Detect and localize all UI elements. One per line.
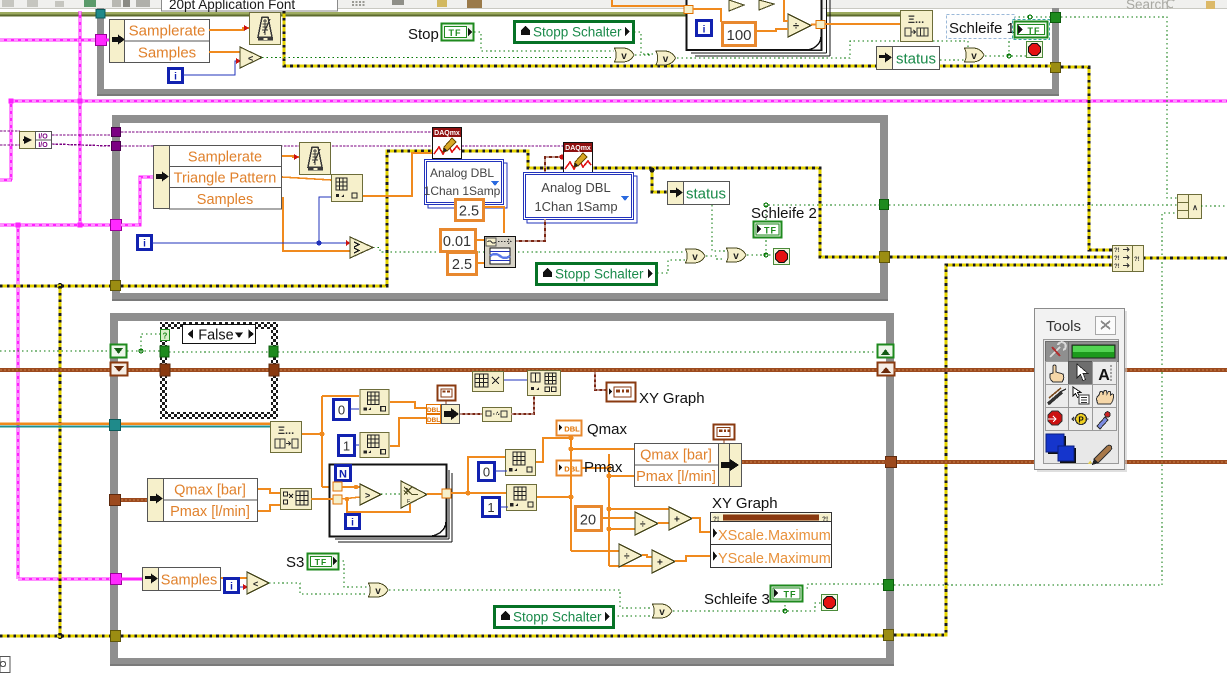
svg-text:TF: TF (764, 226, 777, 236)
svg-text:i: i (703, 25, 706, 36)
wire: brown waveform wire across loop3 row (0, 368, 877, 372)
svg-text:A: A (1098, 367, 1110, 384)
tool: edit text (A) (1093, 362, 1117, 385)
node: unbundle Samples (loop3 bottom) (143, 568, 221, 591)
wire: pink stub to unbundle (loop2) (121, 177, 153, 225)
tunnel: for loop array input tunnels (333, 482, 342, 491)
while loop 1 border (97, 8, 1059, 96)
constant: 100 (723, 23, 756, 46)
wire: green dotted loop1 to AND (1061, 17, 1177, 198)
svg-text:Schleife 3: Schleife 3 (704, 591, 770, 608)
node: divide 2 (619, 544, 642, 567)
tunnel: orange tunnel case right (816, 21, 825, 29)
node: partial triangle nodes at cut top of case (729, 0, 774, 11)
svg-text:i: i (351, 518, 354, 529)
wire: dotted Stop TF to OR (474, 32, 614, 51)
wire: orange Samples to less-than (209, 51, 240, 53)
junction: pink wire junctions (9, 99, 83, 228)
node: unbundle Qmax [bar] / Pmax [l/min] (148, 479, 258, 522)
wire: maroon dashed to XY graph terminal (595, 372, 606, 390)
tool: connect wire (spool) (1046, 385, 1069, 408)
wire: maroon dashed below box2 (544, 219, 546, 241)
while loop 3 border (110, 313, 894, 666)
wire: orange select to output tunnel (427, 493, 442, 495)
node: build waveform (loop2) (332, 175, 363, 202)
tunnel: green tunnel loop3 right (884, 580, 894, 591)
svg-text:DBL: DBL (564, 465, 580, 474)
wire: maroon convert to build array (511, 395, 534, 414)
shift register: brown right (loop3) (878, 363, 895, 376)
svg-text:>: > (365, 491, 370, 501)
wire: dotted OR_b output to stop button, TF, tunnel (747, 205, 880, 255)
tunnel: magenta tunnel loop2 left (111, 220, 122, 231)
terminal: Schleife 1 TF with selection (1013, 20, 1050, 40)
wire: blue 0 to index1 (350, 408, 359, 410)
constant: 2.5 (upper) (456, 200, 484, 221)
node: bundle by name Qmax [bar]/Pmax [l/min] (635, 444, 742, 487)
tunnel: orange tunnel case left (684, 6, 693, 14)
wire: orange inside case (693, 9, 721, 22)
node: OR gate 3 (loop1) (965, 48, 985, 62)
svg-text:S3: S3 (286, 554, 304, 571)
node: unbundle status (loop1) (877, 47, 940, 70)
terminal: Schleife 3 TF (771, 586, 803, 602)
svg-text:TF: TF (784, 590, 797, 600)
tunnel: brown tunnels on case border (160, 364, 170, 376)
tunnel: teal on loop1 left border (96, 10, 105, 19)
tunnel: magenta cluster tunnel loop1 left (96, 35, 107, 46)
wire: green dotted loop3 tunnel to right edge (894, 584, 1162, 586)
for loop (loop3) (330, 465, 453, 543)
terminal: Schleife 2 TF (754, 222, 782, 238)
tunnel: green boolean tunnel loop1 right (1051, 13, 1061, 23)
wire: blue transpose to build array (504, 379, 527, 381)
wire: green dotted AND output (1201, 205, 1227, 207)
wire: maroon dashed in-range output to DAQmx write 2 (516, 154, 565, 241)
wire: blue i to compare and build waveform (152, 197, 350, 243)
svg-text:?: ? (163, 332, 168, 341)
svg-text:DBL: DBL (564, 425, 580, 434)
svg-text:Stopp Schalter: Stopp Schalter (555, 267, 644, 282)
svg-text:Tools: Tools (1046, 318, 1081, 335)
tunnel: green tunnel loop2 right (880, 200, 889, 210)
constant: 20 (576, 507, 602, 531)
svg-text:?!: ?! (1134, 257, 1140, 263)
button: loop1 conditional stop terminal (1027, 42, 1043, 58)
wire: orange mesh to indicators and math (536, 436, 669, 566)
node: OR gate b (loop2) (727, 248, 747, 262)
tool: breakpoint (stop sign) (1046, 408, 1069, 431)
tool: scroll (hand) (1093, 385, 1117, 408)
constant: 1 (lower) (483, 498, 500, 517)
node: compound AND (1178, 195, 1202, 219)
tunnel: magenta tunnel loop3 left (111, 574, 122, 585)
svg-text:20pt Application Font: 20pt Application Font (169, 0, 295, 12)
wire: blue i to less-than (183, 61, 240, 75)
node: OR gate 1 (loop1) (615, 48, 635, 62)
node: DAQmx write 1 (433, 128, 462, 159)
dropdown: Analog DBL 1Chan 1Samp (1) (424, 160, 507, 209)
svg-text:Pmax [l/min]: Pmax [l/min] (636, 469, 716, 485)
svg-text:Qmax [bar]: Qmax [bar] (174, 483, 246, 499)
tunnel: olive error tunnel loop2 left (111, 281, 121, 291)
node: wait until next ms multiple (loop2) (300, 143, 331, 175)
svg-text:Analog DBL: Analog DBL (430, 166, 494, 180)
wire: purple DAQmx channel wires (0, 131, 112, 146)
tunnel: for loop output tunnel (442, 489, 451, 498)
wire: dotted compare output to OR gates (373, 248, 685, 253)
wire: orange index outputs to bundle (390, 402, 426, 446)
wire: green dotted into case selector (127, 334, 877, 352)
node: transpose 2D array (473, 372, 504, 392)
wire: brown waveform through case (170, 368, 269, 372)
local variable: Stopp Schalter (loop1) (515, 22, 634, 43)
node: add 2 (652, 550, 675, 573)
wire: orange build waveform to DAQmx write (363, 153, 432, 196)
svg-text:?!: ?! (1114, 264, 1120, 270)
tool: operate value (finger) (1046, 362, 1069, 385)
wire: blue 1 to index2 (355, 444, 359, 446)
svg-text:Schleife 1: Schleife 1 (949, 20, 1015, 37)
wire: orange add2 to YScale input (675, 556, 711, 561)
node: merge errors (1113, 246, 1144, 272)
svg-text:0.01: 0.01 (443, 234, 471, 250)
node: bundle two DBL (427, 405, 460, 425)
node: in range and coerce (485, 237, 516, 268)
terminal: XY Graph indicator (607, 383, 636, 402)
wire: blue 0 to index3 (495, 470, 507, 472)
svg-text:÷: ÷ (793, 21, 799, 33)
node: less than (loop3) (247, 572, 269, 594)
wire: green dotted less-than output to OR (262, 57, 614, 59)
node: OR gate a (loop2) (686, 249, 706, 263)
wire: orange 20 to divide1 (602, 517, 635, 519)
wire: error wire inside loop3 (121, 635, 884, 638)
node: OR gate 2 (loop1) (656, 51, 676, 65)
node: type convert (483, 408, 512, 422)
constant: 1 (second index) (339, 436, 355, 456)
property node: XY Graph XScale/YScale (711, 513, 832, 568)
case selector label False (183, 325, 256, 344)
svg-text:XScale.Maximum: XScale.Maximum (718, 528, 831, 544)
svg-text:Samples: Samples (197, 192, 253, 208)
node: graph data reference above bundle (438, 386, 456, 405)
svg-text:Samplerate: Samplerate (188, 150, 262, 166)
svg-text:i: i (174, 72, 177, 83)
wire: error loop2 to merge (890, 256, 1112, 259)
node: greater than (for loop) (360, 484, 381, 505)
svg-text:XY Graph: XY Graph (712, 495, 778, 512)
node: add 1 (669, 507, 692, 530)
svg-text:÷: ÷ (624, 552, 630, 563)
node: select (for loop) (401, 481, 427, 508)
svg-text:I/O: I/O (38, 134, 48, 141)
wire: orange Samplerate to wait node (209, 28, 249, 30)
local variable: Stopp Schalter (loop2) (537, 264, 657, 285)
node: index array 2 (loop3) (360, 432, 389, 457)
node: DAQmx write 2 (564, 143, 593, 174)
svg-text:Qmax: Qmax (587, 421, 628, 438)
node: DAQmx channel constant I/O (20, 132, 52, 150)
svg-text:Samples: Samples (161, 573, 217, 589)
node: divide 1 (635, 512, 658, 535)
wire: error loop3 up to merge (894, 265, 1112, 635)
wire: orange 100 to divide, top input (756, 0, 788, 31)
wire: dotted OR_a to OR_b (706, 256, 725, 259)
node: build array (loop3 top) (528, 371, 561, 396)
wire: dotted OR3 to stop button and tunnel (985, 17, 1051, 56)
svg-text:Samplerate: Samplerate (129, 23, 206, 40)
wire: orange trunk to lower index nodes (451, 457, 506, 493)
wire: error wire left column (0, 286, 112, 636)
node: unbundle by name Samplerate/Samples (loop1) (110, 20, 210, 63)
terminal: iteration i (loop1) (169, 69, 183, 83)
wire: purple DAQmx wires inside loop2 (121, 132, 563, 146)
node: interleave arrays (281, 489, 312, 510)
svg-text:20: 20 (580, 513, 596, 529)
svg-text:+: + (657, 558, 663, 569)
svg-text:1Chan 1Samp: 1Chan 1Samp (424, 184, 501, 198)
button: palette close (1096, 317, 1116, 335)
terminal: case selector ? (161, 330, 170, 341)
dropdown: Analog DBL 1Chan 1Samp (2) (524, 173, 638, 224)
terminal: i (loop3) (225, 579, 239, 593)
constant: 0 (lower) (479, 463, 495, 481)
terminal: i constant in case (697, 21, 712, 36)
node: unbundle status (loop2) (668, 182, 730, 205)
wire: orange interleave to for loop (311, 498, 333, 500)
wire: dotted OR2 output up and right (635, 41, 968, 58)
wire: dotted compare to select (381, 493, 401, 495)
svg-text:Qmax [bar]: Qmax [bar] (640, 448, 712, 464)
svg-text:Stop: Stop (408, 26, 439, 43)
wire: orange wire at cut-off top into case structure (612, 0, 684, 6)
wire: thick brown bundle output to tunnel and right edge (742, 460, 1227, 464)
wire: blue i to less-than (loop3) (239, 586, 247, 588)
terminal: iteration i (loop2) (138, 236, 152, 250)
svg-text:TF: TF (449, 28, 462, 38)
svg-text:Search: Search (1126, 0, 1169, 12)
svg-text:status: status (686, 186, 726, 203)
tunnel: green tunnels on case border (160, 346, 169, 357)
terminal: for loop i (346, 515, 360, 529)
tunnel: brown cluster tunnel loop3 right (886, 457, 897, 468)
svg-text:P: P (1078, 416, 1084, 425)
svg-text:i: i (143, 239, 146, 250)
svg-text:Schleife 2: Schleife 2 (751, 205, 817, 222)
wire: error loop1 down right side (1061, 67, 1112, 250)
wire: pink stub into unbundle (104, 39, 112, 42)
node: divide (case) (788, 14, 811, 37)
wire: pink cluster wire into loop1 (0, 39, 97, 42)
svg-text:N: N (339, 469, 347, 481)
tunnel: brown tunnel loop3 left (110, 495, 121, 506)
svg-text:TF: TF (1028, 26, 1041, 36)
local variable: Stopp Schalter (loop3) (495, 607, 614, 628)
svg-text:0: 0 (483, 465, 490, 480)
wire: orange Samples down to compare (282, 198, 350, 251)
label: Schleife 1 with selection marquee (947, 15, 1015, 39)
svg-text:1Chan 1Samp: 1Chan 1Samp (534, 199, 617, 214)
tool: set color (blue squares) (1046, 434, 1076, 463)
tunnel: olive error tunnel loop3 right (884, 630, 894, 641)
tunnel: olive error tunnel loop3 left (111, 631, 121, 642)
node: index array 3 (506, 450, 536, 476)
node: OR gate (loop3 right) (653, 604, 673, 618)
wire: dotted Stopp Schalter to OR2 (634, 32, 654, 54)
svg-text:∧: ∧ (1192, 203, 1198, 212)
button: loop3 conditional stop terminal (822, 595, 838, 611)
wire: dotted status to OR3 (940, 59, 964, 61)
shift register: green right (loop3) (878, 345, 894, 358)
svg-text:Triangle Pattern: Triangle Pattern (174, 171, 277, 187)
tunnel: purple tunnels loop2 left (112, 128, 121, 137)
tool: shortcut menu (1069, 385, 1093, 408)
wire: pink stub into Samples unbundle (121, 578, 142, 581)
terminal: Stop TF control (442, 24, 474, 41)
wire: green dotted loop2 to AND (889, 204, 1177, 206)
wire: orange divide output to spreadsheet-string node (811, 23, 900, 26)
svg-text:False: False (198, 328, 233, 344)
wire: dotted Stopp Schalter3 to OR (613, 615, 652, 617)
terminal: Qmax DBL indicator (557, 421, 582, 436)
svg-text:DBL: DBL (427, 407, 440, 414)
svg-text:Stopp Schalter: Stopp Schalter (533, 25, 622, 40)
wire: orange Triangle Pattern to build waveform (282, 177, 331, 180)
wire: dotted S3 and less-than to OR (loop3) (269, 561, 368, 594)
node: compare greater-equal (loop2) (346, 237, 373, 258)
wire: orange 0.01 and 2.5 into in-range (476, 240, 484, 263)
case structure (loop1, top cut off) (687, 0, 831, 56)
svg-text:Pmax [l/min]: Pmax [l/min] (170, 504, 250, 520)
tunnel: teal tunnel loop3 left (110, 420, 121, 431)
tool: auto select LED (1069, 342, 1119, 362)
wire: error wire inside loop1 (284, 11, 1051, 66)
svg-text:status: status (896, 51, 936, 68)
svg-text:1: 1 (487, 500, 494, 515)
node: unbundle by name Samplerate/Triangle Pattern/Samples (loop2) (154, 146, 282, 210)
svg-text:Pmax: Pmax (584, 459, 623, 476)
node: graph reference above bundle strip (714, 425, 735, 444)
button: loop2 conditional stop terminal (774, 249, 790, 265)
toolbar strip (cut off at top) (0, 0, 1227, 12)
wire: orange array distribution trunk (302, 396, 359, 487)
constant: 2.5 (lower) (448, 253, 477, 275)
terminal: S3 TF control (308, 554, 339, 570)
wire: orange unbundle rows to interleave node (258, 489, 280, 511)
node: index array 4 (507, 485, 537, 511)
tool: probe (1069, 408, 1093, 431)
svg-text:XY Graph: XY Graph (639, 390, 705, 407)
tool: get color (dropper) (1093, 408, 1117, 431)
svg-text:<: < (253, 579, 258, 589)
wire: orange + teal array wires into loop3 (0, 424, 110, 427)
wire: maroon cluster bundle to convert (460, 413, 482, 415)
svg-text:0: 0 (338, 403, 345, 418)
wire: green boolean wire into loop3 shift register (0, 350, 111, 352)
svg-text:100: 100 (726, 27, 751, 44)
svg-text:Samples: Samples (138, 45, 196, 62)
svg-text:Stopp Schalter: Stopp Schalter (513, 610, 602, 625)
svg-text:?!: ?! (1114, 256, 1120, 262)
wire: orange divide1 to add1 (658, 522, 669, 524)
svg-text:?!: ?! (1114, 248, 1120, 254)
wire: dotted OR output across loop3 (389, 590, 652, 608)
case structure (loop3) with checkered border (160, 322, 278, 419)
svg-text:Ξ...: Ξ... (278, 425, 294, 437)
constant: 0.01 (441, 230, 476, 252)
svg-text:2.5: 2.5 (452, 257, 472, 273)
junction: error wire junctions left (58, 284, 63, 639)
wire: orange add1 to XScale input (692, 518, 711, 532)
svg-text:<: < (248, 54, 253, 64)
svg-text:Ξ...: Ξ... (908, 14, 924, 26)
wire: dotted OR to stop button and TF (673, 584, 884, 611)
wire: brown waveform wire right of loop3 (894, 368, 1227, 372)
terminal: N count (336, 466, 351, 481)
wire: brown into unbundle (121, 498, 147, 502)
svg-text:Analog DBL: Analog DBL (541, 180, 610, 195)
wire: blue 1 to index4 (500, 506, 508, 508)
font combo box "20pt Application Font" (162, 0, 338, 11)
wire: orange Samples to less-than (loop3) (221, 577, 247, 579)
svg-text:2.5: 2.5 (459, 204, 479, 220)
decoration: partial window icon bottom-left (0, 657, 10, 673)
svg-text:DBL: DBL (427, 417, 440, 424)
wire: merged error to right edge (1143, 257, 1227, 260)
svg-text:?: ? (405, 488, 408, 494)
wire: dotted status2 down to OR_b (712, 205, 725, 251)
node: wait until next ms multiple (loop1) (250, 13, 281, 45)
while loop 2 border (112, 115, 888, 301)
wire: dotted Stopp Schalter2 to OR (657, 260, 685, 273)
tool: paintbrush (1088, 445, 1112, 465)
node: OR gate (loop3 left) (369, 583, 389, 597)
wire: green dotted loop3 to AND (1162, 213, 1177, 585)
node: index array 1 (loop3 upper) (360, 389, 389, 414)
svg-text:YScale.Maximum: YScale.Maximum (718, 551, 831, 567)
node: array to spreadsheet string (901, 11, 933, 42)
svg-text:I/O: I/O (38, 142, 48, 149)
wire: orange and teal wires tunnel to converter (loop3) (121, 424, 270, 427)
wire: orange inside for loop (342, 487, 410, 512)
constant: 0 (upper index) (334, 400, 350, 420)
wire: error wire inside loop2 (121, 151, 880, 286)
wire: olive array wire along top (0, 12, 900, 17)
tool: position/select (arrow, active) (1069, 362, 1093, 385)
svg-text:+: + (674, 515, 680, 526)
terminal: Pmax DBL indicator (557, 461, 582, 476)
tunnel: olive error tunnel loop2 right (880, 252, 890, 263)
node: less than? (loop1) (240, 47, 262, 68)
shift register: green left (loop3) (111, 345, 127, 358)
wire: orange Samplerate to wait node (loop2) (282, 156, 299, 157)
tunnel: olive error tunnel loop1 right (1051, 63, 1061, 73)
shift register: brown left (loop3) (111, 363, 128, 376)
wire: orange divide2 to add2 (642, 555, 652, 557)
wire: orange 2.5 to in-range top (484, 207, 504, 233)
tool: auto tool select cell (1046, 342, 1069, 362)
svg-text:TF: TF (315, 557, 327, 567)
svg-text:i: i (230, 582, 233, 593)
svg-text:÷: ÷ (640, 520, 646, 531)
node: array of clusters to array (loop3 left) (271, 422, 302, 453)
svg-text:1: 1 (343, 439, 350, 454)
